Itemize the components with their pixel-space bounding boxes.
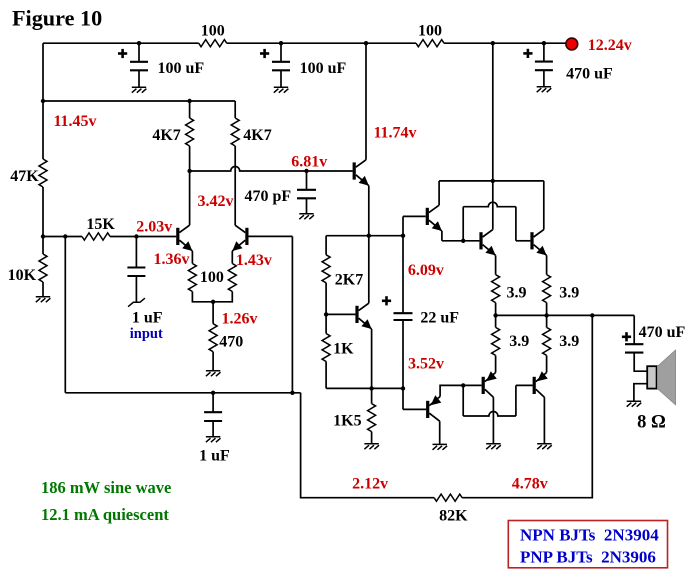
- svg-text:1 uF: 1 uF: [132, 309, 163, 326]
- resistor 100 (top rail right): [416, 40, 444, 47]
- node bias bottom / 22uF: [401, 386, 405, 390]
- wire Qbias emitter down: [371, 329, 373, 388]
- wire output to 3.9 LR: [546, 315, 548, 327]
- node output / feedback: [590, 313, 594, 317]
- wire 6.81v node to Q3 base (hop): [190, 167, 353, 172]
- wire Qbias base lead: [326, 313, 355, 315]
- wire 1K5 bottom lead: [371, 432, 373, 444]
- wire 10K leads: [42, 237, 44, 297]
- transistor Q2 NPN: [232, 225, 248, 251]
- wire top rail middle segment: [227, 42, 416, 44]
- wire input cap bottom lead: [135, 276, 137, 302]
- svg-text:82K: 82K: [439, 507, 468, 524]
- wire Q5 emitter lead: [495, 255, 497, 274]
- node output stage top: [491, 179, 495, 183]
- node NFB rail / Q2 base: [290, 391, 294, 395]
- wire 22uF node to QD base: [402, 388, 404, 409]
- wire 1uF bottom cap top lead: [212, 393, 214, 412]
- wire 1uF bottom cap ground lead: [212, 421, 214, 437]
- node 6.09v line / Q3 emitter: [367, 234, 371, 238]
- svg-text:186 mW sine wave: 186 mW sine wave: [41, 478, 171, 497]
- svg-text:100 uF: 100 uF: [157, 60, 204, 77]
- node divider / NFB branch: [63, 234, 67, 238]
- node divider: [41, 234, 45, 238]
- capacitor 22 uF: [394, 313, 413, 320]
- wire 1K leads: [325, 314, 327, 388]
- svg-text:100: 100: [200, 269, 224, 286]
- svg-text:1 uF: 1 uF: [199, 447, 230, 464]
- ground C2: [274, 87, 289, 92]
- transistor Q1 NPN: [176, 225, 192, 251]
- resistor 3.9 (lower right): [543, 327, 551, 355]
- wire Q8 base lead: [516, 384, 533, 386]
- resistor 3.9 (upper right): [543, 275, 551, 303]
- resistor 100 (Q2 emitter): [228, 264, 236, 292]
- wire C1 bottom lead: [138, 70, 140, 87]
- wire Q8 collector to ground: [543, 397, 545, 443]
- svg-text:470 pF: 470 pF: [244, 188, 291, 205]
- svg-text:3.9: 3.9: [559, 333, 579, 350]
- node rail / output stage: [491, 41, 495, 45]
- wire base link 2 left vertical: [462, 385, 464, 416]
- wire 6.09v node line: [326, 235, 403, 237]
- transistor QD PNP: [426, 395, 441, 421]
- node load rail / 4K7 left: [187, 99, 191, 103]
- wire Q6 emitter lead: [546, 255, 548, 274]
- wire C3 top lead: [543, 43, 545, 61]
- svg-text:3.9: 3.9: [507, 285, 527, 302]
- plus sign C out: [622, 332, 631, 341]
- svg-text:470 uF: 470 uF: [566, 66, 613, 83]
- transistor Qbias NPN: [355, 303, 371, 329]
- wire QD emitter to base node: [440, 385, 463, 396]
- wire top rail left segment: [43, 42, 199, 44]
- capacitor 1 uF input: [127, 268, 145, 277]
- capacitor 470 uF output: [625, 344, 643, 352]
- wire 4K7 left to Q1 collector: [189, 146, 191, 225]
- wire 3.9 UL to output: [495, 303, 497, 316]
- speaker: [647, 350, 675, 405]
- capacitor C1 100 uF: [130, 62, 148, 71]
- svg-text:470: 470: [219, 333, 243, 350]
- wire QD collector to ground: [439, 421, 441, 444]
- wire speaker to ground: [634, 384, 647, 401]
- resistor 3.9 (lower left): [492, 327, 500, 355]
- wire 4K7 right to Q2 collector: [234, 146, 236, 225]
- svg-text:6.81v: 6.81v: [291, 154, 327, 171]
- svg-text:2.03v: 2.03v: [136, 219, 172, 236]
- wire Q7 collector to ground: [492, 397, 494, 443]
- transistor Q6 NPN: [530, 230, 546, 256]
- ground Q8: [537, 444, 552, 449]
- svg-text:PNP BJTs 2N3906: PNP BJTs 2N3906: [520, 547, 656, 566]
- wire 22uF top branch: [402, 216, 404, 313]
- wire NFB to 82K: [301, 393, 435, 498]
- svg-text:4K7: 4K7: [243, 127, 271, 144]
- svg-text:3.9: 3.9: [509, 333, 529, 350]
- node output / 3.9 left: [493, 313, 497, 317]
- svg-text:12.24v: 12.24v: [588, 37, 632, 54]
- node top rail / C1: [137, 41, 141, 45]
- wire collector load rail: [43, 100, 235, 102]
- node bias bottom / 1K5: [369, 386, 373, 390]
- plus sign C2: [260, 49, 269, 58]
- node Q1 base / input cap: [134, 234, 138, 238]
- wire top rail right segment: [444, 42, 566, 44]
- svg-text:input: input: [130, 326, 163, 342]
- resistor 47K: [39, 159, 47, 187]
- resistor 3.9 (upper left): [492, 275, 500, 303]
- svg-text:4K7: 4K7: [152, 127, 180, 144]
- svg-text:15K: 15K: [86, 216, 115, 233]
- wire base link 2 horizontal (hop): [463, 412, 516, 417]
- resistor 2K7: [322, 255, 330, 283]
- wire Q4 emitter to Q5 base: [442, 240, 480, 242]
- wire top line to Q6 collector: [543, 181, 545, 230]
- svg-text:1K: 1K: [333, 341, 354, 358]
- wire 47K to divider node: [42, 187, 44, 237]
- wire NFB bottom rail: [65, 392, 300, 394]
- ground Q7: [486, 444, 501, 449]
- input terminal squiggle: [128, 298, 145, 307]
- transistor Q8 PNP: [533, 371, 548, 397]
- resistor 100 (top rail left): [199, 40, 227, 47]
- wire 470pF top lead: [306, 171, 308, 190]
- resistor 10K: [39, 254, 47, 282]
- wire 3.9 UR to output: [546, 303, 548, 316]
- plus sign C1: [118, 49, 127, 58]
- wire C2 bottom lead: [280, 70, 282, 87]
- wire base link right vertical: [515, 207, 517, 241]
- wire base link horizontal (hop): [463, 202, 516, 206]
- svg-text:4.78v: 4.78v: [512, 475, 548, 492]
- node 6.81v left: [187, 169, 191, 173]
- wire base link 2 right vertical: [515, 385, 517, 416]
- legend box: [508, 521, 667, 568]
- wire left rail upper: [42, 43, 44, 159]
- wire bias bottom line: [326, 387, 403, 389]
- node top rail / C2: [279, 41, 283, 45]
- svg-text:100: 100: [418, 23, 442, 40]
- wire C2 top lead: [280, 43, 282, 62]
- wire QD base lead: [403, 408, 426, 410]
- wire 22uF bottom lead: [402, 320, 404, 388]
- wire Q7 base lead: [463, 384, 481, 386]
- svg-text:11.45v: 11.45v: [53, 113, 96, 130]
- svg-text:12.1 mA quiescent: 12.1 mA quiescent: [41, 505, 169, 524]
- wire Q3 emitter / Qbias collector: [368, 186, 370, 304]
- wire 470 to ground: [212, 352, 214, 371]
- ground 10K: [36, 297, 51, 302]
- wire Q4 emitter down: [441, 231, 443, 241]
- wire top node to Q5 collector: [492, 181, 494, 230]
- transistor Q7 PNP: [482, 371, 497, 397]
- wire Q6 base lead: [516, 240, 531, 242]
- svg-text:8 Ω: 8 Ω: [637, 413, 666, 433]
- wire 1K5 top lead: [371, 388, 373, 403]
- wire Q2 base to NFB rail: [291, 236, 293, 392]
- ground C1: [132, 87, 147, 92]
- wire Q3 collector to rail: [365, 43, 367, 160]
- wire tail to 470: [212, 302, 214, 324]
- node NFB rail / 1uF: [211, 391, 215, 395]
- wire NFB left vertical: [64, 237, 66, 393]
- resistor 15K: [82, 233, 110, 240]
- wire divider to 15K: [43, 236, 82, 238]
- ground speaker: [627, 401, 642, 406]
- svg-text:1.26v: 1.26v: [222, 310, 258, 327]
- capacitor C3 470 uF: [535, 62, 553, 71]
- svg-text:2K7: 2K7: [335, 272, 363, 289]
- wire Q4 collector up: [438, 181, 440, 205]
- wire Q4 base lead: [403, 215, 426, 217]
- node rail / Q3 collector: [364, 41, 368, 45]
- node output / 3.9 right: [544, 313, 548, 317]
- wire C out to speaker: [634, 353, 647, 372]
- ground 470: [206, 371, 221, 376]
- resistor 100 (Q1 emitter): [188, 264, 196, 292]
- wire input cap top lead: [135, 237, 137, 268]
- wire 4K7 left top lead: [189, 101, 191, 118]
- node 6.81v / 470pF: [304, 169, 308, 173]
- node 6.09v / 22uF branch: [401, 234, 405, 238]
- ground C3: [537, 87, 552, 92]
- wire output to C out: [633, 315, 635, 344]
- ground 1uF bottom: [206, 437, 221, 442]
- wire Q1 emitter lead: [191, 251, 193, 264]
- wire 2K7 to 1K: [325, 283, 327, 315]
- wire C1 top lead: [138, 43, 140, 62]
- svg-text:22 uF: 22 uF: [420, 309, 459, 326]
- resistor 4K7 left: [186, 118, 194, 146]
- wire 82K to output node: [462, 315, 592, 497]
- resistor 470: [209, 324, 217, 352]
- capacitor 1 uF bottom: [204, 412, 222, 421]
- resistor 4K7 right: [231, 118, 239, 146]
- svg-text:NPN BJTs 2N3904: NPN BJTs 2N3904: [520, 525, 659, 544]
- ground 1K5: [364, 444, 379, 449]
- transistor Q5 NPN: [479, 230, 495, 256]
- supply terminal red dot: [566, 38, 578, 50]
- svg-text:6.09v: 6.09v: [408, 262, 444, 279]
- wire output node line: [496, 314, 635, 316]
- transistor Q3 NPN: [353, 160, 369, 186]
- wire output to 3.9 LL: [495, 315, 497, 327]
- resistor 1K5: [368, 404, 376, 432]
- wire 4K7 right top lead: [234, 101, 236, 118]
- svg-text:2.12v: 2.12v: [352, 475, 388, 492]
- svg-text:47K: 47K: [10, 168, 39, 185]
- svg-text:1.43v: 1.43v: [236, 252, 272, 269]
- capacitor C2 100 uF: [272, 62, 290, 71]
- wire rail to output stage top: [492, 43, 494, 181]
- svg-text:470 uF: 470 uF: [639, 324, 686, 341]
- node tail: [211, 300, 215, 304]
- wire C3 bottom lead: [543, 70, 545, 86]
- svg-text:11.74v: 11.74v: [373, 125, 416, 142]
- transistor Q4 NPN: [426, 205, 442, 231]
- wire 3.9 LR to Q8 emitter: [546, 355, 548, 372]
- wire 3.9 LL to Q7 emitter: [495, 355, 497, 372]
- svg-text:10K: 10K: [8, 267, 37, 284]
- svg-text:3.42v: 3.42v: [198, 193, 234, 210]
- svg-text:100: 100: [201, 23, 225, 40]
- ground QD: [433, 444, 448, 449]
- wire Q2 base lead: [249, 235, 293, 237]
- wire Q2 emitter lead: [231, 251, 233, 264]
- node left rail / collector rail: [41, 99, 45, 103]
- wire 2K7 top lead: [325, 236, 327, 255]
- node top rail / C3: [542, 41, 546, 45]
- plus sign 22uF: [382, 296, 391, 305]
- svg-text:3.9: 3.9: [559, 285, 579, 302]
- wire 470pF bottom lead: [306, 198, 308, 213]
- svg-text:3.52v: 3.52v: [408, 356, 444, 373]
- wire base link left vertical: [462, 207, 464, 241]
- wire output stage top line: [439, 180, 544, 182]
- node Q7 base link: [461, 383, 465, 387]
- wire emitter resistors junction: [192, 292, 232, 302]
- capacitor 470 pF: [297, 190, 316, 199]
- plus sign C3: [523, 49, 532, 58]
- wire 15K to Q1 base: [110, 236, 176, 238]
- svg-text:1K5: 1K5: [333, 413, 361, 430]
- node Q5 base link: [461, 239, 465, 243]
- ground 470pF: [299, 214, 314, 219]
- node Qbias base: [324, 312, 328, 316]
- svg-text:100 uF: 100 uF: [300, 60, 347, 77]
- svg-text:1.36v: 1.36v: [154, 251, 190, 268]
- svg-text:Figure 10: Figure 10: [12, 6, 102, 31]
- resistor 82K: [434, 494, 462, 501]
- resistor 1K: [322, 334, 330, 362]
